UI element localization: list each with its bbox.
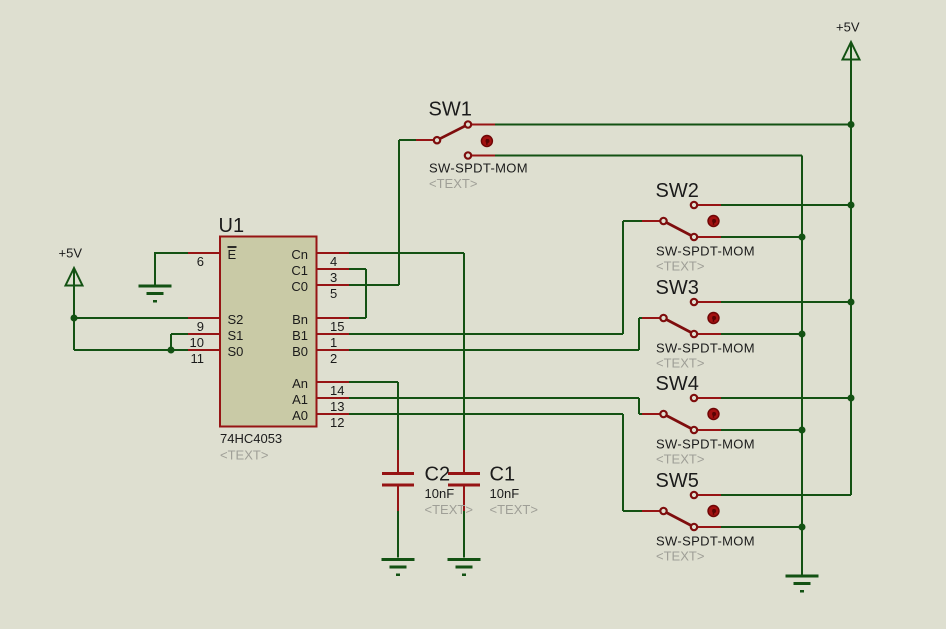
svg-text:A0: A0 [292, 408, 308, 423]
svg-text:C1: C1 [291, 263, 308, 278]
svg-text:B0: B0 [292, 344, 308, 359]
svg-text:C2: C2 [425, 464, 451, 486]
svg-text:2: 2 [330, 351, 337, 366]
svg-text:9: 9 [197, 319, 204, 334]
svg-text:<TEXT>: <TEXT> [656, 451, 704, 466]
svg-text:SW-SPDT-MOM: SW-SPDT-MOM [656, 243, 755, 258]
svg-text:6: 6 [197, 254, 204, 269]
svg-text:12: 12 [330, 415, 344, 430]
svg-text:B1: B1 [292, 328, 308, 343]
svg-text:An: An [292, 376, 308, 391]
svg-text:<TEXT>: <TEXT> [425, 502, 473, 517]
svg-text:Bn: Bn [292, 312, 308, 327]
svg-text:U1: U1 [219, 215, 245, 237]
svg-text:<TEXT>: <TEXT> [429, 176, 477, 191]
svg-text:SW-SPDT-MOM: SW-SPDT-MOM [656, 340, 755, 355]
svg-text:SW1: SW1 [429, 99, 472, 121]
svg-text:SW5: SW5 [656, 470, 699, 492]
svg-text:10: 10 [190, 335, 204, 350]
svg-text:C0: C0 [291, 279, 308, 294]
svg-text:74HC4053: 74HC4053 [220, 431, 282, 446]
svg-text:S2: S2 [228, 312, 244, 327]
svg-text:SW3: SW3 [656, 277, 699, 299]
svg-text:10nF: 10nF [490, 486, 520, 501]
svg-text:A1: A1 [292, 392, 308, 407]
svg-text:10nF: 10nF [425, 486, 455, 501]
svg-text:11: 11 [191, 351, 205, 366]
svg-text:+5V: +5V [836, 20, 860, 35]
svg-text:13: 13 [330, 399, 344, 414]
svg-text:1: 1 [330, 335, 337, 350]
svg-text:Cn: Cn [291, 247, 308, 262]
svg-text:SW4: SW4 [656, 373, 699, 395]
svg-text:SW2: SW2 [656, 180, 699, 202]
svg-text:15: 15 [330, 319, 344, 334]
svg-text:<TEXT>: <TEXT> [490, 502, 538, 517]
svg-text:SW-SPDT-MOM: SW-SPDT-MOM [656, 533, 755, 548]
svg-text:+5V: +5V [59, 246, 83, 261]
svg-text:14: 14 [330, 383, 344, 398]
svg-text:<TEXT>: <TEXT> [220, 448, 268, 463]
svg-text:S1: S1 [228, 328, 244, 343]
svg-text:<TEXT>: <TEXT> [656, 355, 704, 370]
svg-text:E: E [228, 247, 237, 262]
svg-text:<TEXT>: <TEXT> [656, 548, 704, 563]
svg-text:5: 5 [330, 286, 337, 301]
svg-text:SW-SPDT-MOM: SW-SPDT-MOM [656, 436, 755, 451]
svg-text:SW-SPDT-MOM: SW-SPDT-MOM [429, 161, 528, 176]
svg-text:S0: S0 [228, 344, 244, 359]
svg-text:C1: C1 [490, 464, 516, 486]
svg-text:4: 4 [330, 254, 337, 269]
svg-text:<TEXT>: <TEXT> [656, 258, 704, 273]
svg-text:3: 3 [330, 270, 337, 285]
